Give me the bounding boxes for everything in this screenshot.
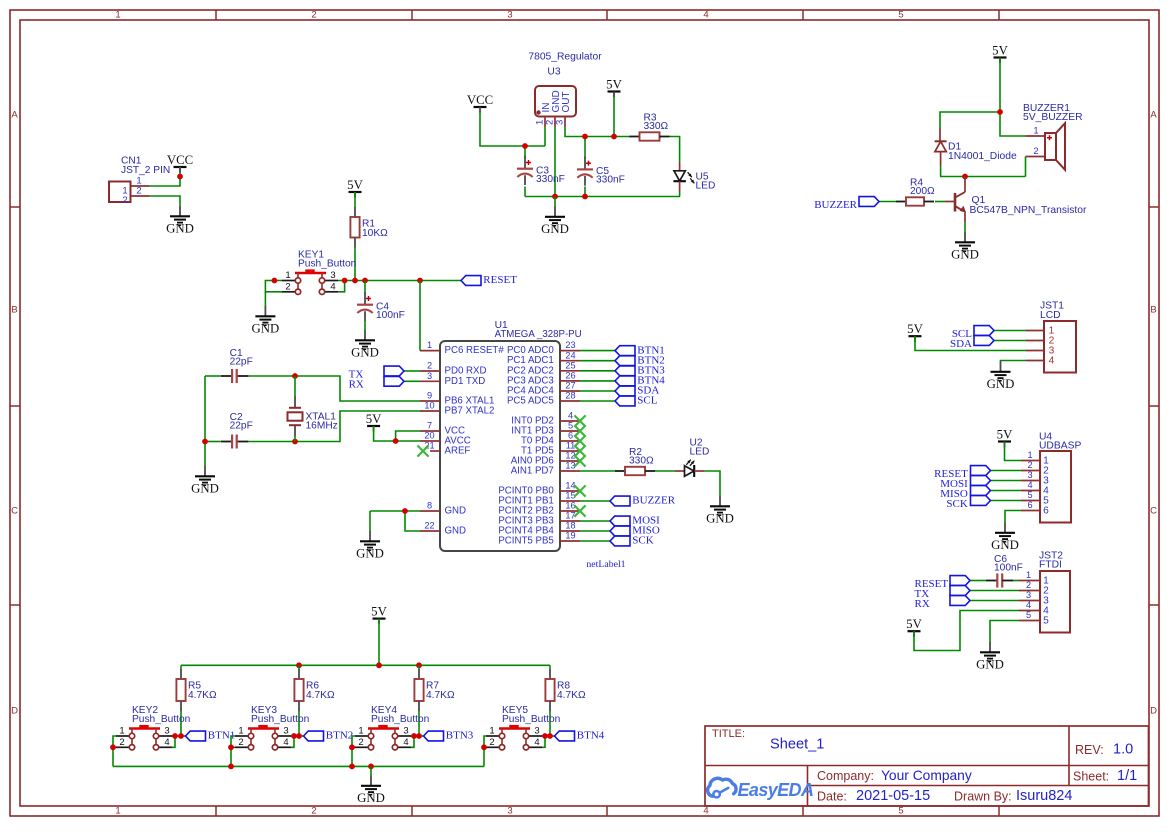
svg-text:3: 3 xyxy=(283,726,288,737)
svg-text:2: 2 xyxy=(311,10,316,21)
svg-text:GND: GND xyxy=(541,222,569,236)
svg-text:PC6 RESET#: PC6 RESET# xyxy=(445,345,505,356)
svg-text:1: 1 xyxy=(427,340,432,350)
svg-text:2: 2 xyxy=(238,737,243,748)
svg-text:6: 6 xyxy=(1043,505,1049,516)
svg-text:200Ω: 200Ω xyxy=(910,186,935,197)
svg-text:Your Company: Your Company xyxy=(881,768,972,783)
svg-text:D: D xyxy=(1150,706,1157,717)
svg-text:330nF: 330nF xyxy=(536,174,565,185)
svg-text:1: 1 xyxy=(1026,570,1031,580)
svg-text:3: 3 xyxy=(534,726,539,737)
svg-text:16: 16 xyxy=(565,501,575,511)
svg-text:4: 4 xyxy=(1049,355,1055,366)
svg-text:100nF: 100nF xyxy=(376,310,405,321)
svg-text:4: 4 xyxy=(403,737,408,748)
svg-text:4.7KΩ: 4.7KΩ xyxy=(306,690,335,701)
svg-text:5V: 5V xyxy=(992,44,1008,58)
svg-text:3: 3 xyxy=(330,270,335,281)
svg-text:GND: GND xyxy=(706,512,734,526)
svg-text:FTDI: FTDI xyxy=(1039,560,1062,571)
svg-text:GND: GND xyxy=(357,791,385,805)
svg-text:PC5 ADC5: PC5 ADC5 xyxy=(507,396,554,407)
svg-text:330Ω: 330Ω xyxy=(644,121,669,132)
svg-text:5: 5 xyxy=(1043,615,1049,626)
svg-text:LCD: LCD xyxy=(1040,310,1061,321)
svg-text:C: C xyxy=(1150,506,1157,517)
svg-text:RESET: RESET xyxy=(483,274,517,286)
svg-text:8: 8 xyxy=(427,501,432,511)
svg-text:2: 2 xyxy=(122,195,127,206)
svg-text:D: D xyxy=(11,706,18,717)
svg-text:5: 5 xyxy=(568,421,573,431)
svg-text:9: 9 xyxy=(427,391,432,401)
svg-text:7805_Regulator: 7805_Regulator xyxy=(528,52,602,63)
svg-text:2: 2 xyxy=(285,282,290,293)
svg-text:Isuru824: Isuru824 xyxy=(1016,788,1072,804)
svg-text:5: 5 xyxy=(1027,490,1032,500)
svg-text:4.7KΩ: 4.7KΩ xyxy=(426,690,455,701)
svg-text:2: 2 xyxy=(119,737,124,748)
svg-text:18: 18 xyxy=(565,521,575,531)
svg-text:BTN4: BTN4 xyxy=(577,730,605,742)
svg-text:27: 27 xyxy=(565,381,575,391)
svg-text:1: 1 xyxy=(489,726,494,737)
svg-text:2021-05-15: 2021-05-15 xyxy=(856,788,930,804)
svg-text:4: 4 xyxy=(568,411,573,421)
svg-text:GND: GND xyxy=(445,526,467,537)
svg-text:AREF: AREF xyxy=(445,446,471,457)
svg-text:16MHz: 16MHz xyxy=(306,421,338,432)
svg-text:5V: 5V xyxy=(906,617,922,631)
svg-text:GND: GND xyxy=(951,248,979,262)
svg-text:23: 23 xyxy=(565,340,575,350)
svg-text:4.7KΩ: 4.7KΩ xyxy=(188,690,217,701)
svg-text:1: 1 xyxy=(119,726,124,737)
svg-text:Company:: Company: xyxy=(817,769,874,783)
svg-text:U3: U3 xyxy=(547,67,560,78)
svg-text:1: 1 xyxy=(115,10,120,21)
svg-text:4: 4 xyxy=(164,737,169,748)
svg-text:5V: 5V xyxy=(907,322,923,336)
svg-text:AIN1 PD7: AIN1 PD7 xyxy=(511,466,554,477)
svg-text:GND: GND xyxy=(445,506,467,517)
svg-text:netLabel1: netLabel1 xyxy=(586,559,625,570)
svg-text:4: 4 xyxy=(283,737,288,748)
svg-text:22: 22 xyxy=(424,521,434,531)
svg-text:5: 5 xyxy=(898,806,903,817)
svg-text:2: 2 xyxy=(358,737,363,748)
svg-text:3: 3 xyxy=(164,726,169,737)
svg-text:1: 1 xyxy=(285,270,290,281)
svg-text:3: 3 xyxy=(403,726,408,737)
svg-text:RX: RX xyxy=(915,598,930,610)
svg-text:BTN2: BTN2 xyxy=(326,730,354,742)
svg-text:2: 2 xyxy=(1033,146,1038,157)
svg-text:BUZZER: BUZZER xyxy=(814,199,857,211)
svg-text:Push_Button: Push_Button xyxy=(502,714,560,725)
svg-text:6: 6 xyxy=(1027,500,1032,510)
svg-text:11: 11 xyxy=(566,441,576,451)
svg-text:GND: GND xyxy=(252,322,280,336)
svg-text:3: 3 xyxy=(507,806,512,817)
svg-text:2: 2 xyxy=(136,186,141,197)
svg-text:EasyEDA: EasyEDA xyxy=(738,780,814,800)
svg-text:A: A xyxy=(11,110,18,121)
svg-text:10: 10 xyxy=(424,401,434,411)
svg-text:RX: RX xyxy=(349,379,364,391)
svg-text:BUZZER: BUZZER xyxy=(632,495,675,507)
svg-text:GND: GND xyxy=(976,658,1004,672)
svg-text:3: 3 xyxy=(1026,590,1031,600)
svg-text:B: B xyxy=(11,305,17,316)
svg-text:330Ω: 330Ω xyxy=(629,456,654,467)
svg-text:28: 28 xyxy=(565,391,575,401)
svg-text:26: 26 xyxy=(565,371,575,381)
svg-text:JST_2 PIN: JST_2 PIN xyxy=(121,165,170,176)
svg-text:A: A xyxy=(1150,110,1157,121)
svg-text:3: 3 xyxy=(507,10,512,21)
svg-text:20: 20 xyxy=(424,431,434,441)
svg-text:GND: GND xyxy=(166,222,194,236)
svg-text:Drawn By:: Drawn By: xyxy=(954,790,1012,804)
svg-text:330nF: 330nF xyxy=(596,175,625,186)
svg-text:7: 7 xyxy=(427,421,432,431)
svg-text:GND: GND xyxy=(191,482,219,496)
svg-text:3: 3 xyxy=(427,371,432,381)
svg-text:100nF: 100nF xyxy=(994,563,1023,574)
svg-text:REV:: REV: xyxy=(1075,743,1104,757)
svg-text:22pF: 22pF xyxy=(230,357,253,368)
svg-text:GND: GND xyxy=(987,377,1015,391)
svg-text:14: 14 xyxy=(565,481,575,491)
svg-text:25: 25 xyxy=(565,360,575,370)
svg-text:5V: 5V xyxy=(347,178,363,192)
svg-text:PCINT5 PB5: PCINT5 PB5 xyxy=(498,536,553,547)
svg-text:24: 24 xyxy=(565,350,575,360)
svg-text:SCK: SCK xyxy=(632,535,653,547)
svg-text:4: 4 xyxy=(330,282,335,293)
svg-text:1.0: 1.0 xyxy=(1113,742,1133,758)
svg-text:5V_BUZZER: 5V_BUZZER xyxy=(1023,112,1083,123)
svg-text:3: 3 xyxy=(555,120,566,125)
svg-text:SCL: SCL xyxy=(637,395,657,407)
svg-text:1N4001_Diode: 1N4001_Diode xyxy=(948,151,1017,162)
svg-text:ATMEGA _328P-PU: ATMEGA _328P-PU xyxy=(495,329,582,340)
svg-text:GND: GND xyxy=(991,538,1019,552)
svg-text:Push_Button: Push_Button xyxy=(298,259,356,270)
svg-text:5: 5 xyxy=(1026,610,1031,620)
svg-text:1: 1 xyxy=(358,726,363,737)
svg-text:PB7 XTAL2: PB7 XTAL2 xyxy=(445,406,495,417)
svg-text:1: 1 xyxy=(1027,450,1032,460)
svg-text:PD1 TXD: PD1 TXD xyxy=(445,376,486,387)
svg-text:1/1: 1/1 xyxy=(1117,768,1137,784)
svg-text:Sheet_1: Sheet_1 xyxy=(770,737,824,753)
svg-text:19: 19 xyxy=(565,531,575,541)
svg-text:Push_Button: Push_Button xyxy=(132,714,190,725)
svg-text:TITLE:: TITLE: xyxy=(712,728,745,740)
svg-text:5V: 5V xyxy=(371,605,387,619)
svg-text:6: 6 xyxy=(568,431,573,441)
svg-text:Push_Button: Push_Button xyxy=(251,714,309,725)
svg-text:LED: LED xyxy=(696,181,716,192)
svg-text:VCC: VCC xyxy=(167,153,193,167)
svg-text:4: 4 xyxy=(703,806,708,817)
svg-text:10KΩ: 10KΩ xyxy=(362,228,388,239)
svg-text:2: 2 xyxy=(311,806,316,817)
svg-text:5: 5 xyxy=(898,10,903,21)
svg-text:2: 2 xyxy=(427,361,432,371)
svg-text:C: C xyxy=(11,506,18,517)
svg-text:4: 4 xyxy=(534,737,539,748)
svg-text:5V: 5V xyxy=(366,412,382,426)
svg-text:GND: GND xyxy=(351,346,379,360)
svg-text:4: 4 xyxy=(703,10,708,21)
svg-text:2: 2 xyxy=(489,737,494,748)
svg-text:2: 2 xyxy=(1026,580,1031,590)
svg-text:5V: 5V xyxy=(997,428,1013,442)
svg-text:4: 4 xyxy=(1027,480,1032,490)
svg-text:1: 1 xyxy=(238,726,243,737)
svg-text:B: B xyxy=(1150,305,1156,316)
svg-text:Sheet:: Sheet: xyxy=(1073,770,1109,784)
svg-text:Push_Button: Push_Button xyxy=(371,714,429,725)
svg-text:3: 3 xyxy=(1027,470,1032,480)
svg-text:LED: LED xyxy=(690,446,710,457)
svg-text:4.7KΩ: 4.7KΩ xyxy=(557,690,586,701)
svg-text:22pF: 22pF xyxy=(230,421,253,432)
svg-text:2: 2 xyxy=(1027,460,1032,470)
svg-text:GND: GND xyxy=(356,547,384,561)
svg-text:1: 1 xyxy=(1033,126,1038,137)
svg-text:SDA: SDA xyxy=(950,338,972,350)
svg-text:5V: 5V xyxy=(606,78,622,92)
svg-text:SCK: SCK xyxy=(946,498,967,510)
svg-text:OUT: OUT xyxy=(561,91,572,112)
svg-text:VCC: VCC xyxy=(467,93,493,107)
svg-text:BTN3: BTN3 xyxy=(446,730,474,742)
svg-text:1: 1 xyxy=(115,806,120,817)
svg-text:BC547B_NPN_Transistor: BC547B_NPN_Transistor xyxy=(970,205,1088,216)
svg-text:Date:: Date: xyxy=(817,790,847,804)
svg-text:4: 4 xyxy=(1026,600,1031,610)
